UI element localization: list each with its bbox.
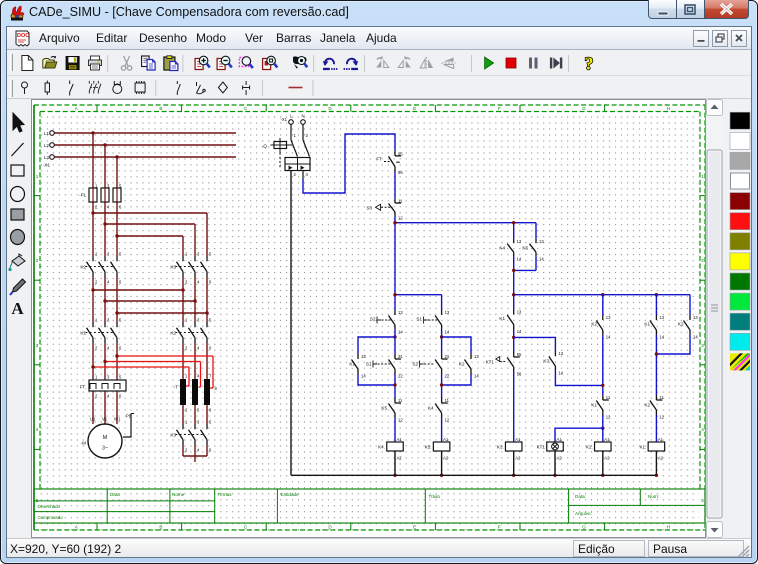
svg-text:13: 13: [445, 310, 450, 315]
svg-text:E: E: [413, 106, 416, 111]
svg-text:13: 13: [539, 239, 544, 244]
svg-text:14: 14: [558, 371, 563, 376]
svg-text:A1: A1: [397, 437, 403, 442]
svg-text:Título: Título: [429, 494, 441, 499]
svg-text:55: 55: [517, 352, 522, 357]
svg-text:E: E: [413, 525, 416, 530]
svg-text:F: F: [498, 525, 501, 530]
svg-text:B: B: [159, 106, 162, 111]
svg-text:-X1: -X1: [43, 163, 51, 168]
svg-text:Nome: Nome: [172, 492, 185, 497]
svg-text:3: 3: [36, 343, 39, 348]
svg-text:?: ?: [585, 55, 594, 72]
svg-text:14: 14: [517, 329, 522, 334]
svg-text:-X1: -X1: [280, 117, 287, 122]
svg-text:K1: K1: [591, 403, 597, 408]
svg-text:K3: K3: [170, 265, 176, 270]
svg-text:L2: L2: [44, 143, 50, 148]
svg-text:K2: K2: [459, 362, 465, 367]
svg-text:A1: A1: [515, 437, 521, 442]
svg-text:A1: A1: [443, 437, 449, 442]
svg-text:K5.: K5.: [425, 445, 432, 450]
svg-text:H: H: [667, 525, 670, 530]
svg-text:95: 95: [398, 152, 403, 157]
svg-text:4: 4: [36, 427, 39, 432]
svg-text:1: 1: [36, 174, 39, 179]
svg-text:13: 13: [659, 315, 664, 320]
svg-text:22: 22: [398, 374, 403, 379]
svg-text:W1: W1: [114, 417, 121, 422]
svg-text:5: 5: [701, 498, 704, 503]
svg-text:A2: A2: [658, 456, 664, 461]
svg-text:3~: 3~: [102, 446, 108, 452]
svg-text:11: 11: [398, 398, 403, 403]
svg-text:12: 12: [659, 415, 664, 420]
svg-text:K2: K2: [644, 403, 650, 408]
svg-text:S2: S2: [412, 362, 418, 367]
svg-text:K2: K2: [591, 322, 597, 327]
svg-text:V1: V1: [102, 417, 108, 422]
svg-text:K3: K3: [543, 359, 549, 364]
svg-text:-M: -M: [81, 441, 87, 446]
svg-text:A2: A2: [397, 456, 403, 461]
svg-text:Arquivo:: Arquivo:: [575, 511, 592, 516]
svg-text:22: 22: [445, 374, 450, 379]
svg-text:G: G: [582, 106, 586, 111]
svg-text:Entidade: Entidade: [281, 492, 300, 497]
svg-text:12: 12: [606, 415, 611, 420]
svg-text:13: 13: [361, 354, 366, 359]
svg-text:K1: K1: [349, 362, 355, 367]
svg-text:K4.: K4.: [378, 445, 385, 450]
svg-text:G: G: [582, 525, 586, 530]
svg-text:12: 12: [398, 418, 403, 423]
svg-text:56: 56: [517, 372, 522, 377]
svg-text:14: 14: [693, 335, 698, 340]
svg-text:K4: K4: [499, 246, 505, 251]
svg-text:14: 14: [474, 374, 479, 379]
svg-text:A2: A2: [557, 456, 563, 461]
svg-text:K2.: K2.: [586, 445, 593, 450]
svg-text:KT1: KT1: [486, 360, 495, 365]
svg-text:11: 11: [659, 395, 664, 400]
svg-text:14: 14: [517, 257, 522, 262]
svg-text:14: 14: [606, 335, 611, 340]
svg-text:Data: Data: [110, 492, 120, 497]
svg-text:A1: A1: [604, 437, 610, 442]
svg-text:K5: K5: [522, 246, 528, 251]
svg-text:A1: A1: [557, 437, 563, 442]
svg-text:K2: K2: [80, 265, 86, 270]
svg-text:M: M: [103, 435, 108, 441]
svg-text:K2: K2: [678, 322, 684, 327]
svg-text:A2: A2: [443, 456, 449, 461]
svg-text:L3: L3: [44, 155, 50, 160]
svg-text:FT: FT: [376, 157, 382, 162]
svg-text:K3.: K3.: [497, 445, 504, 450]
svg-text:11: 11: [606, 395, 611, 400]
svg-text:Comprovado: Comprovado: [38, 515, 64, 520]
svg-text:N: N: [301, 114, 304, 119]
svg-text:Num:: Num:: [648, 494, 659, 499]
svg-text:H: H: [667, 106, 670, 111]
svg-text:14: 14: [398, 330, 403, 335]
svg-text:A2: A2: [515, 456, 521, 461]
svg-text:S1: S1: [366, 362, 372, 367]
svg-text:B: B: [159, 525, 162, 530]
svg-text:14: 14: [539, 257, 544, 262]
svg-text:K3: K3: [170, 433, 176, 438]
svg-text:-T: -T: [174, 385, 179, 390]
svg-text:2: 2: [36, 258, 39, 263]
svg-text:13: 13: [558, 351, 563, 356]
svg-text:K1.: K1.: [639, 445, 646, 450]
svg-text:12: 12: [398, 216, 403, 221]
svg-text:13: 13: [606, 315, 611, 320]
svg-text:FT.: FT.: [80, 385, 86, 390]
svg-text:K1: K1: [80, 331, 86, 336]
svg-text:4: 4: [701, 427, 704, 432]
svg-text:14: 14: [361, 374, 366, 379]
svg-text:Desenhado: Desenhado: [38, 504, 61, 509]
svg-text:14: 14: [445, 330, 450, 335]
svg-text:-Q: -Q: [262, 144, 268, 149]
svg-text:S2: S2: [370, 317, 376, 322]
svg-text:11: 11: [398, 199, 403, 204]
svg-text:A1: A1: [658, 437, 664, 442]
svg-text:13: 13: [474, 354, 479, 359]
svg-text:S1: S1: [416, 317, 422, 322]
svg-text:S0: S0: [366, 206, 372, 211]
svg-text:12: 12: [445, 418, 450, 423]
svg-text:3: 3: [701, 343, 704, 348]
svg-text:A: A: [11, 299, 24, 318]
svg-text:K4: K4: [428, 406, 434, 411]
svg-text:KT1: KT1: [537, 445, 546, 450]
svg-text:2: 2: [701, 258, 704, 263]
svg-text:13: 13: [398, 310, 403, 315]
svg-text:A2: A2: [604, 456, 610, 461]
svg-text:13: 13: [517, 239, 522, 244]
svg-text:F: F: [498, 106, 501, 111]
svg-text:-F1: -F1: [79, 193, 86, 198]
svg-text:U1: U1: [90, 417, 96, 422]
svg-text:DOC: DOC: [17, 33, 29, 39]
svg-text:1: 1: [701, 174, 704, 179]
svg-text:11: 11: [445, 398, 450, 403]
svg-text:Firmas: Firmas: [218, 492, 233, 497]
svg-text:K2: K2: [170, 331, 176, 336]
svg-text:13: 13: [517, 310, 522, 315]
svg-text:Data:: Data:: [575, 494, 586, 499]
svg-text:21: 21: [398, 354, 403, 359]
svg-text:13: 13: [693, 315, 698, 320]
svg-text:96: 96: [398, 170, 403, 175]
svg-text:14: 14: [659, 335, 664, 340]
svg-text:K5: K5: [381, 406, 387, 411]
svg-text:K1: K1: [644, 322, 650, 327]
svg-text:K1: K1: [499, 316, 505, 321]
svg-text:L1: L1: [44, 131, 50, 136]
svg-text:21: 21: [445, 354, 450, 359]
